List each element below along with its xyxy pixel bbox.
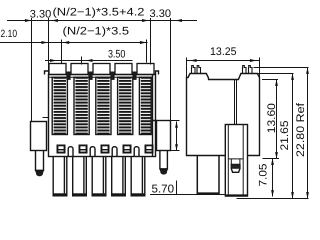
arrowhead row1 d — [175, 19, 182, 22]
gap tab 2 — [90, 147, 95, 156]
side pin tip — [231, 164, 240, 172]
ext line x170.5 — [170, 18, 172, 121]
dim 21.65 line — [292, 74, 294, 199]
svg-text:2.10: 2.10 — [1, 28, 18, 40]
pin 1 — [192, 66, 196, 74]
dim 7.05 line — [272, 159, 274, 197]
gap tab 3 — [112, 147, 117, 156]
body outline with pedestals — [187, 74, 260, 156]
svg-text:13.25: 13.25 — [210, 46, 237, 58]
pin 2 — [197, 66, 201, 74]
contact square 4 — [123, 145, 132, 154]
arrowheads 5.70 vertical — [175, 122, 178, 128]
middle box / right leg — [225, 125, 248, 197]
svg-text:3.30: 3.30 — [150, 8, 172, 20]
svg-text:5.70: 5.70 — [152, 183, 175, 195]
contact square 5 — [145, 145, 154, 154]
leg 2 — [73, 156, 87, 196]
divider bump 1 — [66, 72, 70, 80]
cap 5 — [137, 64, 154, 75]
ext line x48.5 — [48, 18, 50, 75]
body right inner step line — [153, 75, 157, 157]
right end box — [157, 121, 171, 151]
ext line x60.5 — [61, 40, 63, 64]
ledge ext line — [262, 79, 278, 81]
svg-text:(N/2−1)*3.5+4.2: (N/2−1)*3.5+4.2 — [53, 6, 145, 18]
cap 4 — [115, 64, 132, 75]
body outline — [49, 75, 156, 157]
contact square 1 — [57, 145, 66, 154]
svg-text:7.05: 7.05 — [258, 164, 270, 187]
arrowhead row2 a — [41, 41, 48, 44]
arrowheads 22.80 — [306, 68, 309, 74]
svg-text:3.50: 3.50 — [108, 48, 126, 60]
arrowhead row1 a — [25, 19, 32, 22]
ext 13.25 left — [186, 58, 188, 78]
cap 1 — [49, 64, 66, 75]
arrowheads 21.65 — [291, 74, 294, 80]
side pin slot — [228, 159, 243, 165]
shelf line — [49, 76, 153, 78]
contact square 2 — [79, 145, 88, 154]
end divider left — [45, 71, 49, 75]
internal channel lines — [235, 80, 237, 125]
arrowhead row3 b — [86, 59, 93, 62]
ext line x82.5 — [81, 57, 83, 65]
ext 13.25 right — [259, 58, 261, 78]
arrowheads 7.05 — [271, 159, 274, 165]
dim 22.80 line — [307, 68, 309, 199]
pin-top ext line — [254, 67, 309, 69]
side leg left — [197, 156, 219, 195]
hatch column 2 — [74, 77, 89, 134]
gap tab 1 — [68, 147, 73, 156]
ext line x150.5 — [150, 18, 152, 65]
gap tab 4 — [134, 147, 139, 156]
pin 3 — [243, 66, 247, 74]
box bottom ext right — [171, 150, 180, 152]
ext line x31.5 — [31, 18, 33, 122]
contact square 3 — [101, 145, 110, 154]
arrowhead row2 c — [140, 41, 147, 44]
leg 3 — [92, 156, 106, 196]
hatch column 4 — [118, 77, 133, 134]
pedestal-top ext line — [258, 73, 294, 75]
pin 4 — [249, 66, 253, 74]
divider bump 2 — [88, 72, 92, 80]
arrowheads 13.60 — [275, 80, 278, 86]
right end pin tip — [161, 169, 167, 171]
seat ext line — [263, 158, 280, 160]
5.70 leader line — [150, 181, 225, 195]
dim row1 line — [7, 20, 197, 22]
body left step line — [43, 117, 49, 119]
baseline ext line — [237, 198, 309, 200]
left end box — [31, 122, 47, 151]
ext line x146.5 — [146, 40, 148, 63]
svg-text:22.80 Ref: 22.80 Ref — [295, 102, 307, 157]
svg-text:21.65: 21.65 — [279, 121, 291, 151]
divider bump 3 — [110, 72, 114, 80]
right end stub — [160, 151, 168, 170]
svg-text:(N/2−1)*3.5: (N/2−1)*3.5 — [63, 26, 130, 38]
end divider right — [156, 71, 159, 75]
arrowhead row1 b — [51, 19, 58, 22]
arrowheads 13.25 — [190, 59, 197, 62]
dim 13.60 line — [276, 80, 278, 159]
5.70 vertical double arrow — [176, 122, 178, 151]
left end pin tip — [36, 171, 42, 173]
cap 3 — [93, 64, 110, 75]
hatch column 5 — [139, 77, 151, 134]
leg 5 — [131, 156, 145, 196]
hatch column 1 — [52, 77, 67, 134]
leg 4 — [112, 156, 126, 196]
dim 13.25 line — [187, 60, 260, 62]
svg-text:3.30: 3.30 — [30, 9, 52, 21]
divider bump 4 — [132, 72, 136, 80]
cap 2 — [71, 64, 88, 75]
leg 1 — [53, 156, 67, 196]
box top ext right — [171, 120, 180, 122]
hatch column 3 — [96, 77, 111, 134]
arrowhead row3 a — [50, 59, 57, 62]
dim row3 line (3.50) — [45, 60, 133, 62]
arrowhead row2 b — [63, 41, 70, 44]
left end stub — [36, 151, 44, 171]
svg-text:13.60: 13.60 — [266, 103, 278, 133]
arrowhead row1 c — [142, 19, 149, 22]
dim row2 line — [0, 42, 148, 44]
